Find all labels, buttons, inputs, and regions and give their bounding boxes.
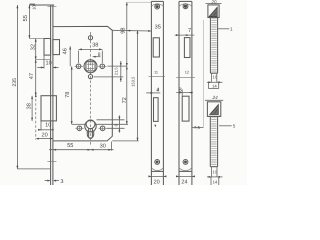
case top extension + dim 35 — [112, 25, 161, 32]
svg-text:78: 78 — [65, 92, 71, 98]
faceplate edge view 2 (right, 24) — [205, 95, 236, 185]
hole below spindle — [88, 75, 92, 79]
svg-text:35: 35 — [155, 25, 161, 31]
profile cylinder hole — [85, 120, 96, 139]
svg-text:47: 47 — [29, 73, 35, 79]
latch bolt — [29, 39, 59, 60]
svg-text:38: 38 — [26, 103, 32, 109]
fp2 latch cutout — [153, 38, 159, 57]
fp2 small mark — [154, 125, 156, 128]
svg-text:7,5: 7,5 — [194, 125, 201, 130]
dim 17 cylinder diameter — [97, 115, 125, 132]
fig1 dim 10 — [207, 73, 223, 83]
fig1 latch bevel triangle — [208, 7, 219, 17]
svg-text:5: 5 — [233, 124, 236, 129]
fig1 dim 20 — [206, 0, 222, 4]
svg-text:20: 20 — [41, 132, 47, 138]
svg-text:11: 11 — [154, 69, 158, 74]
dim 46 — [63, 46, 72, 66]
fig1 leader 1 — [218, 27, 233, 32]
fp3 top screw — [183, 4, 188, 9]
svg-text:1: 1 — [230, 27, 233, 32]
svg-text:32: 32 — [31, 44, 37, 50]
faceplate edge view 1 (top right, 20) — [206, 0, 234, 88]
svg-text:8: 8 — [179, 87, 182, 93]
svg-text:12: 12 — [185, 69, 189, 74]
lock case outline — [53, 26, 112, 140]
deadbolt — [35, 94, 57, 140]
fp2 bottom screw — [155, 160, 160, 165]
fig1 dim 14 — [208, 82, 218, 88]
dim 153,5 case height — [112, 30, 138, 140]
dim 78 spindle-cylinder — [65, 66, 87, 124]
fp2 deadbolt cutout — [154, 98, 159, 122]
svg-text:10: 10 — [45, 123, 51, 129]
fp3 bottom dim 24 — [176, 175, 195, 185]
svg-text:21,5: 21,5 — [114, 68, 119, 76]
svg-text:235: 235 — [12, 78, 18, 87]
svg-text:14: 14 — [212, 84, 217, 89]
fp2 dim 4 — [146, 88, 160, 94]
spindle follower — [84, 60, 97, 73]
fp3 deadbolt cutout — [182, 96, 189, 121]
svg-text:20: 20 — [153, 179, 159, 185]
cylinder screw holes — [75, 126, 107, 132]
svg-text:24: 24 — [181, 179, 187, 185]
fig2 dim 24 — [205, 95, 223, 100]
hole above spindle — [88, 34, 92, 41]
fig1 stulp bar — [210, 18, 217, 74]
dim 21,5 — [94, 61, 128, 82]
svg-text:30: 30 — [100, 143, 106, 149]
fp2 center tick + label 11 — [149, 69, 165, 76]
faceplate front view 3 (24 wide) — [175, 1, 204, 185]
fig2 dim 14 — [211, 177, 219, 185]
faceplate edge (double line) — [29, 5, 56, 185]
fig2 dim 10 — [207, 167, 223, 178]
dim 10 deadbolt throw — [38, 121, 54, 131]
handle screw holes — [75, 64, 107, 70]
svg-text:3: 3 — [60, 179, 63, 185]
svg-text:10: 10 — [32, 5, 37, 10]
dim 32 — [31, 39, 37, 60]
dim 38 deadbolt height — [26, 96, 33, 121]
svg-text:14: 14 — [213, 179, 218, 184]
dim line 98/72 — [95, 2, 152, 124]
fp2 bottom dim 20 — [148, 175, 166, 185]
lock body left view — [12, 2, 161, 185]
fig2 latch bevel triangle — [208, 105, 221, 117]
svg-text:10: 10 — [45, 60, 51, 66]
dim 20 deadbolt thrown — [36, 132, 53, 139]
fig1 head box — [208, 5, 219, 18]
svg-text:7: 7 — [188, 28, 191, 34]
fig2 head box — [207, 102, 220, 117]
svg-text:10: 10 — [212, 170, 217, 175]
svg-text:46: 46 — [63, 48, 69, 54]
svg-text:20: 20 — [210, 0, 217, 4]
fig2 stulp bar — [210, 116, 217, 166]
centerline vertical — [90, 32, 92, 145]
dim 235 overall — [12, 5, 50, 169]
svg-text:4: 4 — [156, 88, 159, 94]
svg-text:55: 55 — [67, 143, 73, 149]
faceplate front view 2 (20 wide) — [146, 1, 166, 185]
svg-text:72: 72 — [122, 97, 128, 103]
dim 8 square — [93, 52, 101, 58]
fp2 top screw — [155, 4, 160, 9]
svg-text:8: 8 — [98, 52, 101, 58]
fp3 center tick + label 12 — [176, 69, 195, 77]
svg-text:153,5: 153,5 — [130, 76, 135, 87]
dim 3 faceplate thickness — [45, 179, 64, 185]
fp3 dim 7 — [175, 28, 195, 36]
bottom dims 55 / 30 — [49, 142, 114, 151]
fp3 latch cutout — [184, 38, 190, 58]
dim 10 latch protrusion — [37, 55, 58, 68]
dim 47 — [29, 60, 37, 96]
fp3 dim 7,5 right — [192, 20, 203, 130]
fp3 bottom screw — [183, 160, 188, 165]
svg-text:38: 38 — [92, 42, 98, 48]
dim 55 top — [23, 4, 37, 39]
svg-text:10: 10 — [213, 74, 218, 79]
dim 38 hole spacing — [79, 42, 103, 63]
svg-text:24: 24 — [212, 95, 219, 100]
fp3 dim 8 — [176, 87, 193, 95]
fig2 leader 5 — [219, 124, 236, 129]
svg-text:55: 55 — [23, 15, 29, 21]
